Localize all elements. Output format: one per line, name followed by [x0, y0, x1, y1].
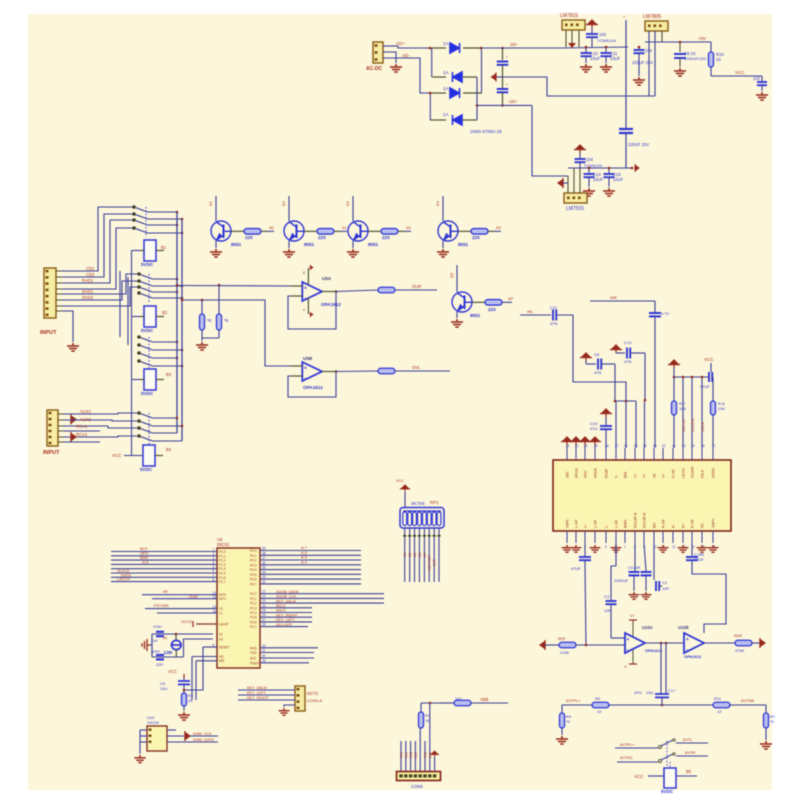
capacitor C14 10UF — [588, 168, 590, 173]
svg-text:AIN1A: AIN1A — [575, 467, 579, 478]
svg-text:A2: A2 — [413, 553, 417, 557]
svg-text:VCC: VCC — [634, 774, 644, 779]
svg-text:26: 26 — [624, 444, 628, 448]
svg-text:47U: 47U — [590, 426, 597, 431]
junction — [429, 702, 432, 705]
svg-text:104: 104 — [599, 32, 607, 37]
svg-text:27: 27 — [262, 618, 266, 622]
transistor Q3 8551 — [352, 196, 354, 221]
wire signal C11 — [520, 314, 551, 316]
resistor R12 10K — [673, 377, 675, 401]
svg-text:P0.7: P0.7 — [250, 582, 257, 586]
svg-text:R9: R9 — [595, 696, 601, 701]
junction — [585, 644, 588, 647]
svg-text:U5B: U5B — [303, 356, 313, 361]
capacitor C13 47N — [610, 345, 622, 353]
svg-text:DCCAP-A: DCCAP-A — [634, 512, 638, 528]
wire — [674, 376, 709, 378]
wire RD — [192, 656, 217, 658]
arrow output right — [760, 638, 765, 648]
svg-text:A.4: A.4 — [301, 559, 308, 564]
svg-text:2200UF/16V: 2200UF/16V — [684, 56, 707, 61]
ground — [67, 343, 79, 351]
wire +5V rail — [645, 41, 711, 43]
svg-text:XTA+: XTA+ — [153, 625, 163, 629]
svg-text:18+: 18+ — [510, 42, 518, 47]
svg-text:LATCH: LATCH — [117, 577, 130, 582]
wire center tap — [503, 77, 656, 96]
svg-text:INT1: INT1 — [219, 597, 226, 601]
svg-text:1PU: 1PU — [634, 690, 642, 695]
svg-text:V+: V+ — [643, 474, 647, 478]
capacitor C1 104 — [586, 20, 598, 28]
svg-text:8551: 8551 — [470, 313, 481, 318]
svg-text:R+: R+ — [682, 524, 686, 528]
capacitor C5 104 — [638, 47, 640, 49]
svg-text:RP1: RP1 — [430, 500, 439, 505]
connector J1 AC-DC — [373, 42, 383, 63]
ground — [210, 249, 222, 257]
svg-text:10: 10 — [717, 709, 722, 714]
resistor R21 1K — [420, 703, 422, 712]
capacitor C7 220UF 25V electrolytic — [625, 20, 627, 128]
svg-text:DVD1: DVD1 — [82, 289, 94, 294]
wire output B — [704, 642, 735, 644]
svg-text:8551: 8551 — [368, 242, 379, 247]
svg-text:26: 26 — [262, 613, 266, 617]
svg-text:47N: 47N — [624, 359, 631, 364]
svg-text:C13: C13 — [624, 340, 632, 345]
wire — [573, 315, 626, 401]
svg-text:SVT: SVT — [433, 558, 437, 566]
svg-text:U5A: U5A — [322, 276, 332, 281]
resistor R10 1K — [710, 42, 712, 52]
power arrows IC pins — [561, 437, 573, 445]
relay K2 5VDC — [144, 306, 156, 327]
svg-text:E2: E2 — [281, 200, 286, 206]
svg-text:T0: T0 — [219, 607, 223, 611]
svg-text:36: 36 — [262, 561, 266, 565]
connector J5 CON8 — [397, 772, 441, 781]
svg-text:5VDC: 5VDC — [141, 391, 154, 396]
svg-text:C2: C2 — [662, 580, 668, 585]
svg-text:E4: E4 — [435, 200, 440, 206]
svg-text:+5V: +5V — [698, 36, 706, 41]
svg-text:SUOB_DATA: SUOB_DATA — [276, 590, 299, 594]
transistor Q2 8551 — [288, 196, 290, 221]
svg-text:LM7915: LM7915 — [566, 206, 584, 212]
wire — [625, 401, 627, 448]
resistor R18 *K — [764, 713, 769, 728]
switch group S3 — [137, 335, 141, 339]
svg-text:C11: C11 — [550, 305, 558, 310]
svg-text:KEY_LEFT: KEY_LEFT — [247, 691, 267, 695]
resistor R11 10 — [713, 702, 730, 708]
svg-text:KEY_bALM: KEY_bALM — [276, 599, 296, 603]
svg-text:10P: 10P — [604, 608, 611, 613]
wire AUX1 — [64, 413, 137, 414]
wire input pins — [56, 270, 62, 272]
svg-text:IUMb_CLK: IUMb_CLK — [193, 732, 212, 736]
wire — [284, 705, 295, 707]
capacitor C6 2200UF/16V — [679, 42, 681, 52]
svg-text:A4: A4 — [423, 553, 427, 557]
svg-text:10: 10 — [597, 709, 602, 714]
svg-text:AUX2: AUX2 — [80, 417, 92, 422]
svg-text:103: 103 — [753, 76, 761, 81]
svg-text:39: 39 — [262, 547, 266, 551]
svg-text:RbF: RbF — [558, 636, 566, 641]
wire aux pins — [58, 413, 64, 415]
svg-text:P0.2: P0.2 — [250, 559, 257, 563]
svg-text:IUMb_DATA: IUMb_DATA — [193, 738, 214, 742]
svg-text:*K: *K — [224, 318, 229, 323]
svg-text:PSYISR: PSYISR — [154, 603, 169, 608]
svg-text:P0.1: P0.1 — [250, 554, 257, 558]
svg-text:V+: V+ — [630, 614, 636, 618]
svg-text:1A: 1A — [443, 112, 449, 117]
wire eeprom left — [140, 729, 147, 731]
wire — [635, 401, 637, 448]
svg-text:P0.0: P0.0 — [250, 549, 257, 553]
svg-text:10UF: 10UF — [590, 56, 601, 61]
wire — [64, 430, 100, 432]
svg-text:P2.6: P2.6 — [250, 620, 257, 624]
svg-text:23: 23 — [262, 599, 266, 603]
ground — [178, 712, 190, 720]
svg-text:6VTPL+: 6VTPL+ — [620, 742, 635, 747]
resistor R15 470K — [735, 640, 752, 646]
svg-text:RCA1: RCA1 — [76, 424, 88, 429]
svg-text:KEYS: KEYS — [307, 691, 318, 696]
svg-text:LATCH: LATCH — [681, 419, 686, 432]
resistor R20 — [454, 700, 471, 706]
svg-text:XOPV: XOPV — [712, 518, 716, 528]
junction — [429, 47, 432, 50]
svg-text:V-: V- — [615, 475, 619, 478]
svg-text:220: 220 — [318, 235, 326, 240]
svg-text:1000UF: 1000UF — [614, 578, 629, 583]
svg-text:SUOB_CLK: SUOB_CLK — [276, 595, 297, 599]
ground arrow — [558, 178, 563, 188]
svg-text:4: 4 — [303, 308, 305, 312]
svg-text:P0.3: P0.3 — [250, 563, 257, 567]
wire reset node — [184, 647, 203, 690]
svg-text:6V0: 6V0 — [400, 752, 404, 758]
ground — [556, 736, 568, 744]
svg-text:8: 8 — [213, 578, 215, 582]
svg-text:30PF: 30PF — [151, 650, 161, 654]
wire switch outs — [148, 211, 178, 213]
capacitor C11 10UF — [605, 47, 607, 52]
capacitor C24 — [653, 543, 655, 580]
diode D4 1A — [430, 119, 446, 121]
svg-text:30: 30 — [262, 654, 266, 658]
svg-text:CLOCK: CLOCK — [690, 418, 695, 432]
svg-text:ALE: ALE — [250, 657, 256, 661]
resistor R7 *K — [218, 285, 220, 314]
capacitor C19 47U — [600, 409, 612, 417]
svg-text:8551: 8551 — [458, 242, 469, 247]
svg-text:24: 24 — [643, 444, 647, 448]
wire — [692, 568, 726, 633]
resistor R14 470K — [559, 642, 576, 648]
svg-text:10U: 10U — [160, 686, 167, 691]
svg-text:P2.3: P2.3 — [250, 606, 257, 610]
wire RAD1 — [62, 220, 133, 283]
power VCC RP1 — [400, 485, 410, 492]
svg-text:R-: R- — [672, 524, 676, 528]
svg-text:25: 25 — [262, 609, 266, 613]
ground — [641, 592, 652, 599]
svg-text:RbR: RbR — [734, 633, 742, 638]
svg-text:8551: 8551 — [231, 242, 242, 247]
wire switch outs 4 — [153, 417, 178, 419]
junction — [631, 167, 634, 170]
svg-text:VCC: VCC — [735, 70, 745, 75]
svg-text:22: 22 — [262, 594, 266, 598]
wire bottom rail — [562, 704, 766, 706]
svg-text:12: 12 — [672, 545, 676, 549]
svg-text:V+: V+ — [662, 474, 666, 478]
svg-text:R-XIF: R-XIF — [662, 519, 666, 528]
svg-text:+: + — [686, 637, 689, 643]
svg-text:35: 35 — [262, 566, 266, 570]
svg-text:+: + — [627, 637, 630, 643]
IC U7 volume processor — [553, 460, 731, 531]
svg-text:T1: T1 — [219, 612, 223, 616]
svg-text:E1: E1 — [208, 200, 213, 206]
wire switch outs 3 — [153, 341, 178, 343]
svg-text:AD-: AD- — [402, 53, 410, 58]
wire T0 — [145, 608, 217, 610]
svg-text:1A?: 1A? — [455, 697, 462, 701]
power arrow LATCH net — [668, 360, 680, 368]
wire VBB — [421, 702, 440, 704]
svg-text:13: 13 — [213, 595, 217, 599]
svg-text:21: 21 — [672, 444, 676, 448]
wire DATA — [701, 377, 703, 448]
svg-text:220UF 25V: 220UF 25V — [632, 60, 653, 65]
wire opamp power — [307, 268, 309, 285]
wire IC top pins — [566, 448, 568, 460]
svg-text:INL: INL — [527, 309, 534, 314]
svg-text:C3: C3 — [604, 594, 610, 599]
wire input leads — [291, 285, 302, 287]
wire +rail — [482, 47, 563, 49]
svg-text:R-XIF: R-XIF — [691, 519, 695, 528]
svg-text:*K: *K — [770, 719, 775, 724]
wire DVD2 — [62, 281, 138, 300]
svg-text:B3: B3 — [166, 372, 172, 377]
wire res gnd — [202, 337, 219, 339]
svg-text:DCAP: DCAP — [605, 468, 609, 478]
capacitor C12 103 — [761, 76, 763, 81]
svg-text:VCC: VCC — [168, 669, 177, 674]
svg-text:33: 33 — [262, 575, 266, 579]
ground marker — [568, 43, 576, 48]
svg-text:OVL: OVL — [412, 365, 421, 370]
ground — [390, 64, 402, 72]
svg-text:INPUT: INPUT — [43, 450, 60, 456]
svg-text:21: 21 — [262, 590, 266, 594]
svg-text:KEY-OFF: KEY-OFF — [276, 623, 293, 627]
svg-text:19: 19 — [691, 444, 695, 448]
svg-text:OUR: OUR — [412, 284, 421, 289]
wire AUX2 — [64, 420, 137, 421]
junction — [585, 46, 588, 49]
wire — [383, 52, 396, 63]
wire CD1 — [62, 207, 133, 271]
svg-text:A3: A3 — [496, 225, 502, 230]
wire keys — [238, 689, 295, 691]
wire RCA2 — [64, 436, 137, 437]
wire WR — [196, 660, 217, 662]
svg-text:P2.0: P2.0 — [250, 592, 257, 596]
svg-text:VCC: VCC — [112, 453, 122, 458]
svg-text:6VTR2: 6VTR2 — [620, 755, 633, 760]
capacitor C10 10UF — [585, 47, 587, 52]
ground — [279, 708, 290, 715]
capacitor C18 47UF — [709, 372, 712, 382]
ground — [196, 342, 208, 350]
svg-text:10UF: 10UF — [613, 177, 624, 182]
svg-text:10U: 10U — [646, 690, 653, 695]
svg-text:P0.4: P0.4 — [250, 568, 257, 572]
svg-text:VCC: VCC — [704, 357, 714, 362]
svg-text:470K: 470K — [735, 648, 745, 653]
svg-text:DATA: DATA — [700, 422, 705, 432]
svg-text:P2.4: P2.4 — [250, 611, 257, 615]
svg-text:KEY_RIGHT: KEY_RIGHT — [276, 613, 298, 617]
svg-text:PSEN: PSEN — [250, 661, 259, 665]
svg-text:RAD1: RAD1 — [82, 278, 94, 283]
svg-text:-18+: -18+ — [508, 99, 518, 104]
wire LATCH — [682, 377, 684, 448]
svg-text:10P: 10P — [662, 586, 669, 591]
relay K4 5VDC — [143, 445, 155, 466]
svg-text:B5: B5 — [686, 769, 692, 774]
resistor R4 220 — [458, 230, 471, 232]
svg-text:47UF: 47UF — [571, 566, 581, 571]
wire switch outs 2 — [153, 278, 178, 280]
svg-text:6VTL: 6VTL — [683, 737, 693, 742]
svg-text:27: 27 — [615, 444, 619, 448]
wire RAD2 — [62, 228, 133, 289]
svg-text:6VTPL+: 6VTPL+ — [566, 698, 581, 703]
svg-text:BO-: BO- — [653, 522, 657, 528]
resistor R13 10K — [712, 377, 714, 401]
svg-text:VA: VA — [653, 473, 657, 478]
svg-text:B1: B1 — [163, 636, 167, 640]
wire output — [645, 642, 684, 644]
svg-text:INPUT: INPUT — [40, 330, 57, 336]
svg-text:C4-L4R: C4-L4R — [628, 566, 641, 570]
svg-text:L+: L+ — [584, 524, 588, 528]
power arrow — [430, 751, 439, 757]
op-amp U10A OPA1612 — [625, 633, 645, 653]
svg-text:6VTRB: 6VTRB — [741, 698, 754, 703]
resistor R9 — [378, 368, 395, 374]
svg-text:6V5: 6V5 — [424, 752, 428, 758]
wire output A — [322, 291, 336, 293]
svg-text:B4: B4 — [166, 447, 172, 452]
svg-text:OPA1612: OPA1612 — [321, 302, 341, 307]
connector J4 KEYS — [295, 686, 305, 711]
wire row A — [177, 285, 291, 288]
svg-text:V+: V+ — [634, 474, 638, 478]
wire output B — [322, 371, 336, 373]
capacitor C22 1000UF — [634, 543, 636, 571]
junction — [201, 299, 204, 302]
svg-text:VCC: VCC — [396, 479, 404, 483]
svg-text:6V2: 6V2 — [409, 752, 413, 758]
svg-text:*K: *K — [207, 318, 212, 323]
svg-text:24C04: 24C04 — [147, 720, 160, 725]
svg-text:38: 38 — [262, 551, 266, 555]
svg-text:104: 104 — [586, 157, 594, 162]
svg-text:22P: 22P — [156, 662, 163, 667]
svg-text:5VDC: 5VDC — [141, 262, 154, 267]
capacitor C20 47UF — [584, 543, 586, 556]
svg-text:AC-DC: AC-DC — [366, 66, 382, 72]
op-amp U10B OPA1612 — [684, 633, 704, 653]
crystal Y1 12M — [151, 634, 153, 657]
svg-text:P2.7: P2.7 — [250, 625, 257, 629]
svg-text:XOPL: XOPL — [566, 519, 570, 528]
svg-text:5VDC: 5VDC — [141, 328, 154, 333]
svg-text:VBB: VBB — [480, 697, 489, 702]
diode D2 1A — [432, 76, 446, 78]
svg-text:CON8: CON8 — [411, 784, 423, 789]
wire — [532, 105, 568, 176]
switch S5 — [615, 747, 658, 749]
svg-text:A2: A2 — [406, 225, 412, 230]
wire TV1 — [62, 287, 138, 306]
wire regulator pins — [565, 30, 567, 47]
vertical bus A — [176, 212, 178, 433]
svg-text:29: 29 — [262, 659, 266, 663]
ground — [283, 249, 295, 257]
svg-text:220: 220 — [245, 235, 253, 240]
svg-text:TXD: TXD — [250, 651, 257, 655]
wire P1 bus — [111, 551, 217, 553]
wire relay left chain 2 — [131, 317, 133, 380]
arrow input left — [540, 640, 545, 650]
svg-text:AD+: AD+ — [396, 41, 405, 46]
svg-text:C8: C8 — [594, 352, 600, 357]
wire — [383, 45, 398, 47]
svg-text:11: 11 — [262, 649, 266, 653]
wire row B — [182, 300, 291, 366]
svg-text:BbLS: BbLS — [276, 604, 286, 608]
resistor pack RP1 4K7X8 — [400, 508, 444, 529]
wire — [545, 644, 559, 646]
ground — [760, 741, 772, 749]
svg-text:ICS: ICS — [142, 559, 149, 564]
svg-text:5: 5 — [605, 545, 607, 549]
svg-text:A0: A0 — [403, 553, 407, 557]
svg-text:RESET: RESET — [219, 646, 230, 650]
wire bridge mid — [476, 77, 478, 120]
svg-text:47N: 47N — [550, 321, 557, 326]
resistor R3 220 — [368, 230, 381, 232]
wire — [611, 637, 625, 639]
wire junction row — [615, 400, 636, 402]
wire input leads B — [291, 365, 302, 367]
svg-text:L-XIF: L-XIF — [594, 520, 598, 528]
wire IC bottom pins — [566, 531, 568, 543]
